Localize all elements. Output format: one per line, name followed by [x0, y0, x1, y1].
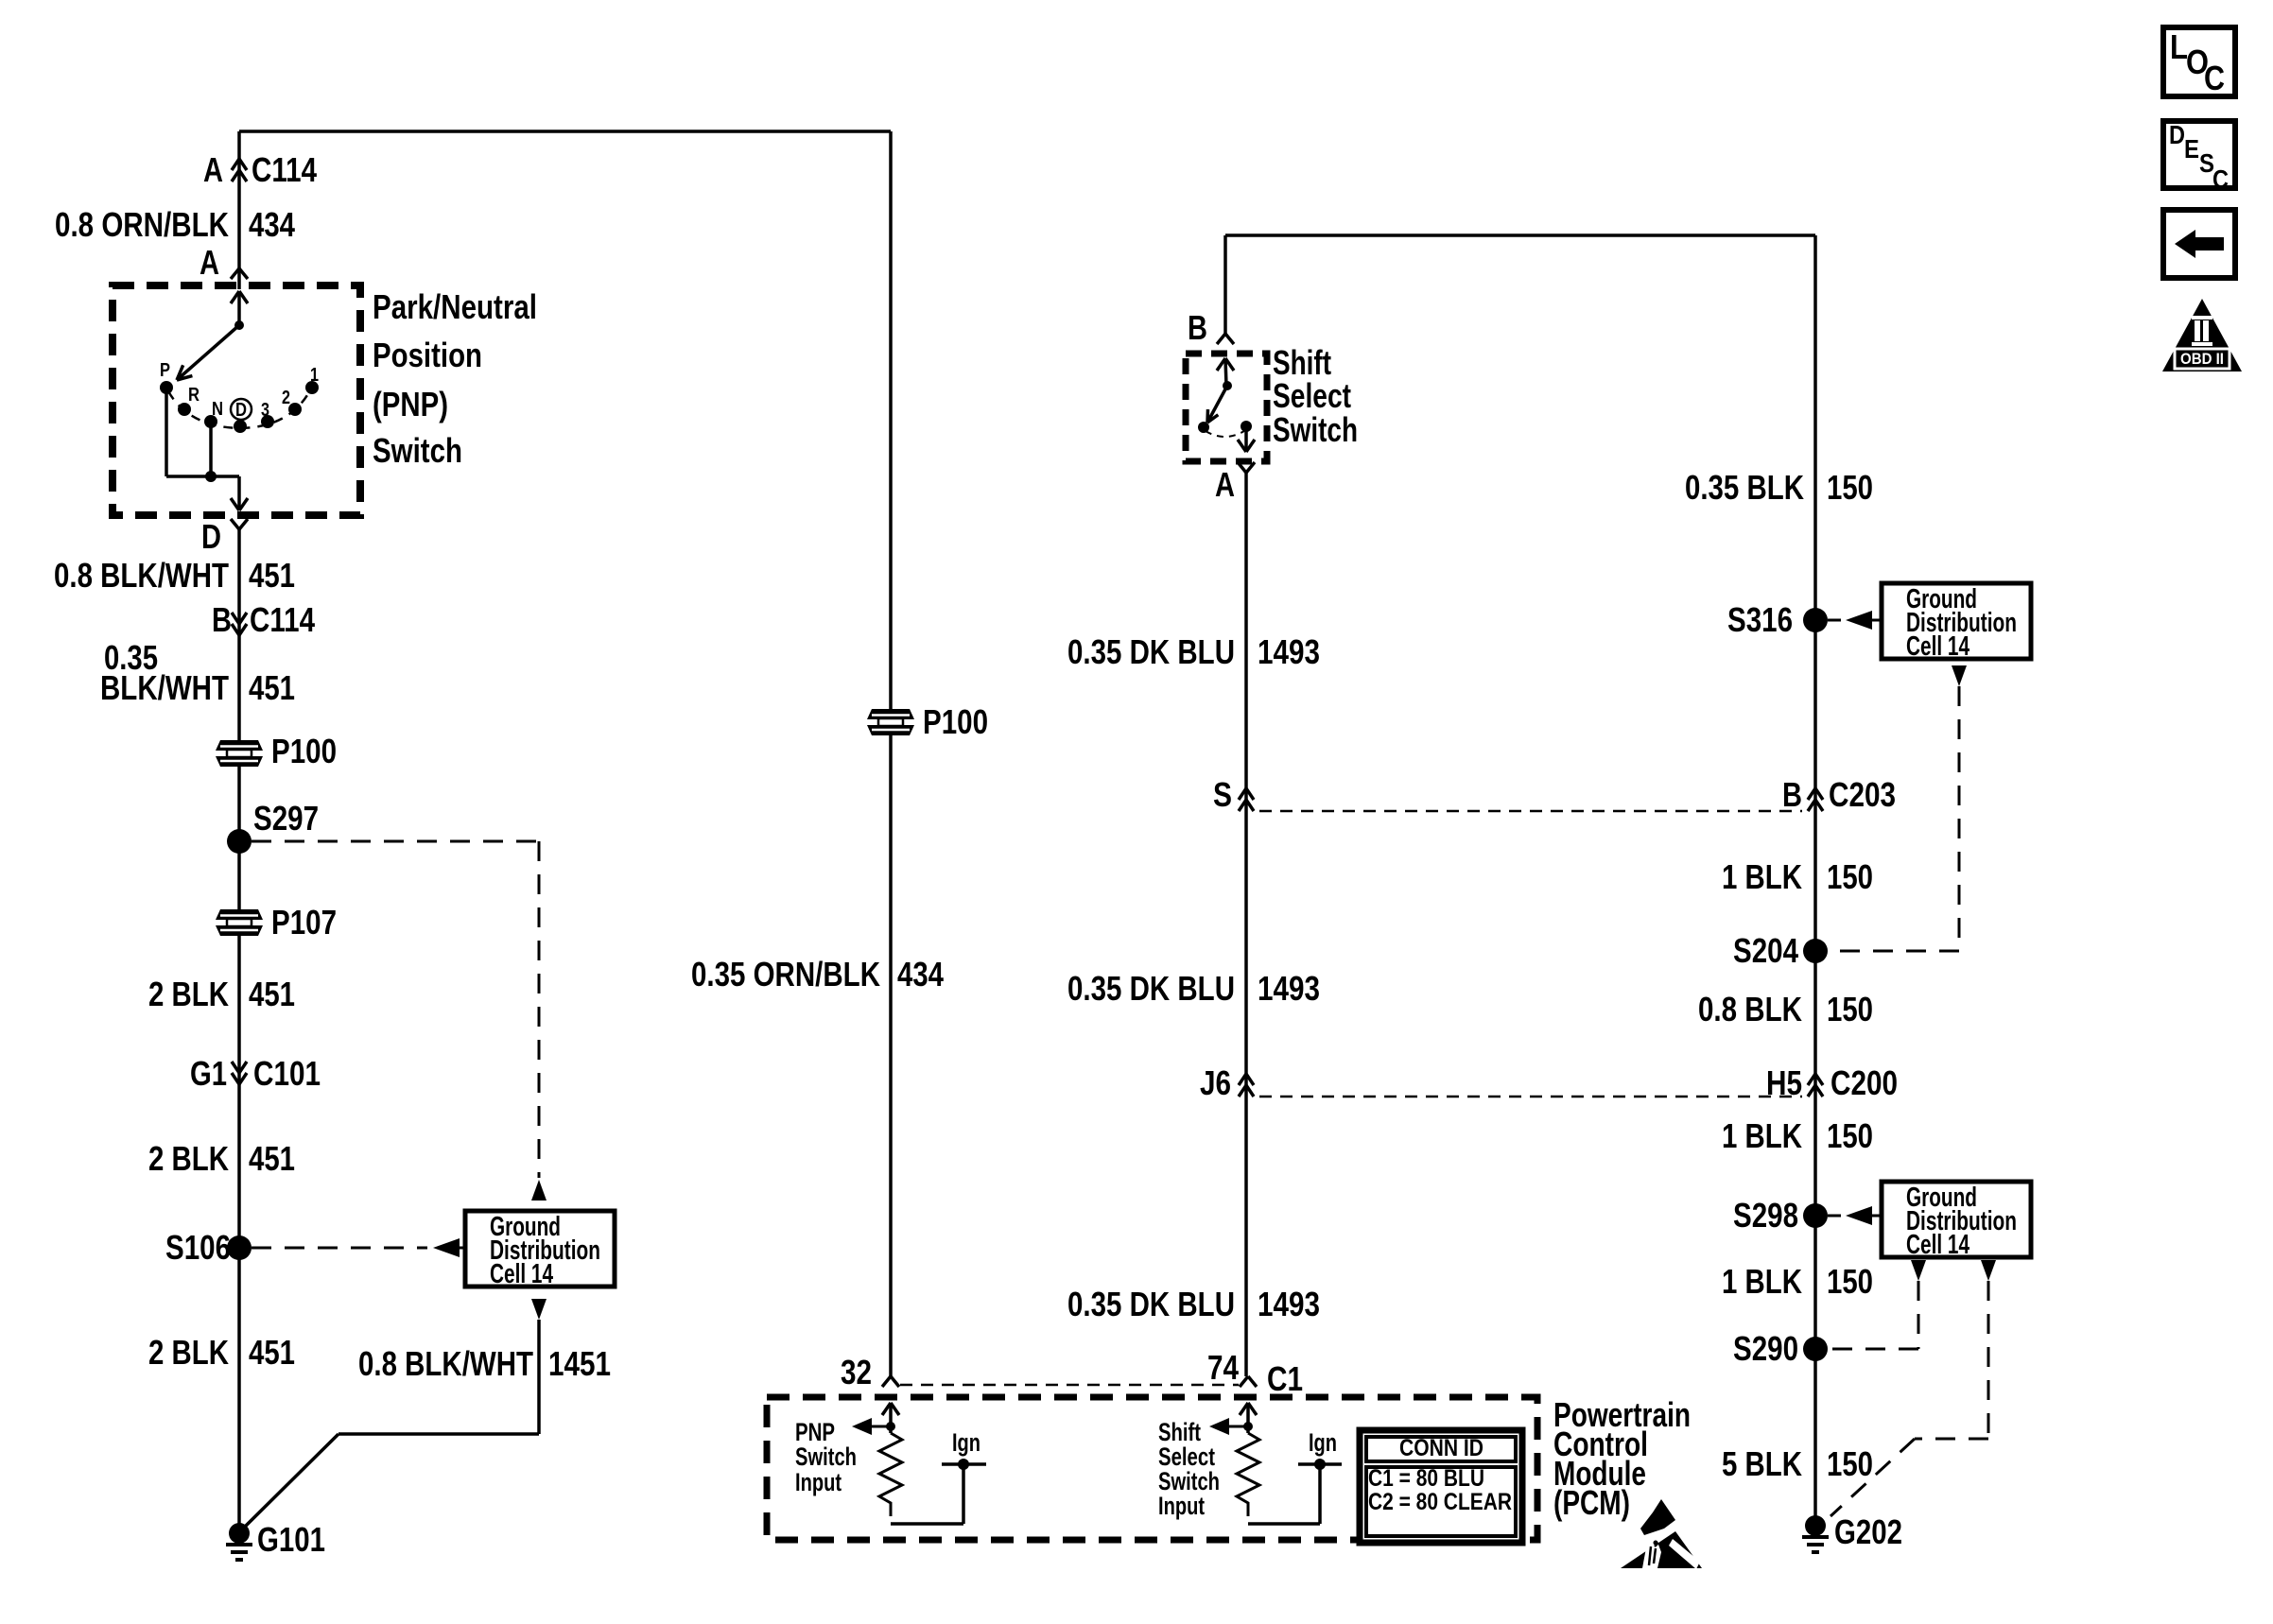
svg-text:74: 74 [1207, 1348, 1239, 1387]
svg-text:D: D [2169, 120, 2185, 149]
svg-text:C: C [2204, 59, 2225, 97]
svg-text:B: B [1188, 308, 1207, 347]
svg-text:2 BLK: 2 BLK [148, 975, 229, 1013]
dashed reference wire from S106 to cell 14 box [252, 1247, 427, 1250]
svg-text:0.35 ORN/BLK: 0.35 ORN/BLK [691, 955, 880, 993]
svg-text:G101: G101 [257, 1520, 325, 1559]
wire: left vertical drop from top to PNP switch [237, 131, 241, 289]
svg-text:1: 1 [310, 365, 319, 386]
arrowhead down below box [531, 1299, 547, 1320]
connector C114 pin A (double chevron) [232, 170, 247, 181]
svg-text:Cell 14: Cell 14 [490, 1259, 553, 1289]
svg-text:Park/Neutral: Park/Neutral [373, 287, 537, 326]
svg-text:2 BLK: 2 BLK [148, 1139, 229, 1178]
position 2 [288, 403, 302, 416]
svg-text:5 BLK: 5 BLK [1722, 1444, 1802, 1483]
arrow to Shift Select Switch Input [1227, 1425, 1248, 1428]
wire: middle vertical 434 circuit down to PCM pin 32 [889, 131, 893, 1376]
svg-text:P100: P100 [271, 732, 337, 770]
svg-text:P107: P107 [271, 903, 337, 942]
svg-text:C114: C114 [250, 600, 315, 639]
wire: PNP D down to C114-B [237, 529, 241, 740]
svg-text:A: A [203, 150, 223, 189]
svg-text:(PNP): (PNP) [373, 385, 448, 423]
svg-text:C203: C203 [1829, 775, 1896, 814]
PNP interior wiring P and N to output D [165, 388, 168, 476]
ground G101 [229, 1523, 250, 1544]
svg-text:451: 451 [249, 668, 295, 707]
wire: right ground column vertical [1813, 235, 1817, 1517]
connector C200 pin J6 (double chevron up) with dashed tie to H5 [1239, 1085, 1254, 1097]
resistor (pin 32 pull-up) [879, 1433, 902, 1516]
svg-text:S316: S316 [1727, 600, 1793, 639]
ground G202 [1805, 1515, 1826, 1536]
svg-text:Cell 14: Cell 14 [1906, 1230, 1969, 1260]
svg-text:BLK/WHT: BLK/WHT [100, 668, 229, 707]
svg-text:C1 = 80 BLU: C1 = 80 BLU [1368, 1465, 1484, 1492]
LOC legend box [2163, 27, 2235, 96]
svg-text:434: 434 [249, 205, 295, 244]
svg-text:G202: G202 [1834, 1512, 1902, 1551]
wire: shift select A down to PCM pin 74 [1244, 473, 1248, 1376]
back-arrow legend box [2163, 210, 2235, 278]
connector C200 pin H5 (double chevron up) [1808, 1085, 1823, 1097]
wire: top-right horizontal from shift-select B to right ground column [1225, 233, 1815, 237]
svg-text:1493: 1493 [1258, 632, 1320, 671]
position 3 [261, 415, 274, 428]
arrowhead left [433, 1238, 460, 1257]
wire: top-left horizontal from C114-A to middle drop [239, 130, 891, 133]
wire P107 to C101 [237, 936, 241, 1533]
svg-text:B: B [1782, 775, 1802, 814]
svg-text:S290: S290 [1733, 1329, 1798, 1368]
svg-text:S: S [1213, 775, 1232, 814]
position 1 [305, 381, 319, 394]
svg-text:S204: S204 [1733, 931, 1798, 970]
svg-text:E: E [2184, 134, 2199, 164]
svg-text:J6: J6 [1200, 1063, 1231, 1102]
svg-text:Ign: Ign [952, 1428, 980, 1457]
connector S (in-line, double chevron up) with dashed tie to C203 [1239, 800, 1254, 811]
wire from cell 14 down-left to G101 [537, 1320, 541, 1434]
svg-text:451: 451 [249, 1139, 295, 1178]
svg-text:0.35 DK BLU: 0.35 DK BLU [1067, 632, 1235, 671]
svg-text:P100: P100 [923, 702, 988, 741]
Ign feed (left) [958, 1459, 969, 1470]
svg-text:2 BLK: 2 BLK [148, 1333, 229, 1372]
arrowheads below box + dashed refs [1911, 1260, 1926, 1281]
connector C114 pin B (double chevron down) [232, 613, 247, 624]
Powertrain Control Module dashed box [767, 1397, 1537, 1540]
svg-text:0.8 ORN/BLK: 0.8 ORN/BLK [55, 205, 229, 244]
splice node S106 [227, 1235, 252, 1260]
svg-text:Switch: Switch [373, 431, 462, 470]
svg-text:0.35 BLK: 0.35 BLK [1685, 468, 1804, 507]
svg-text:32: 32 [841, 1353, 872, 1391]
splice node S316 [1803, 608, 1828, 632]
PCM pin 74 interior: pull-up to Ign [1240, 1403, 1248, 1415]
svg-text:1493: 1493 [1258, 969, 1320, 1008]
position N [204, 415, 217, 428]
svg-text:C114: C114 [252, 150, 317, 189]
PCM pin 32 interior: pull-up to Ign [882, 1403, 891, 1415]
svg-text:0.8 BLK/WHT: 0.8 BLK/WHT [54, 556, 229, 595]
shift switch interior [1217, 358, 1225, 371]
dashed PCM header row between pin 32 and 74 [900, 1384, 1239, 1387]
connector pin D below PNP box [231, 519, 239, 529]
svg-text:A: A [200, 243, 219, 282]
svg-text:CONN ID: CONN ID [1399, 1435, 1484, 1461]
connector pin B [1217, 334, 1225, 344]
svg-text:150: 150 [1827, 1116, 1873, 1155]
svg-text:C1: C1 [1267, 1359, 1303, 1398]
splice node S204 [1803, 939, 1828, 963]
svg-text:S297: S297 [253, 799, 319, 838]
svg-text:451: 451 [249, 975, 295, 1013]
svg-text:G1: G1 [190, 1054, 227, 1093]
reference arrow S298 to cell 14 [1828, 1215, 1841, 1218]
svg-text:OBD II: OBD II [2180, 350, 2224, 368]
svg-text:1493: 1493 [1258, 1285, 1320, 1323]
svg-text:150: 150 [1827, 468, 1873, 507]
svg-text:Select: Select [1273, 376, 1351, 415]
svg-text:D: D [235, 400, 247, 421]
svg-text:150: 150 [1827, 1262, 1873, 1301]
svg-text:434: 434 [897, 955, 944, 993]
OBD II symbol [2162, 299, 2242, 371]
reference arrow S316 to cell 14 [1828, 619, 1841, 622]
connector C101 pin G1 (double chevron down) [232, 1062, 247, 1073]
position P [160, 381, 173, 394]
svg-text:A: A [1215, 465, 1235, 504]
Park/Neutral Position (PNP) Switch dashed box [113, 285, 360, 515]
PNP switch interior: wiper arm from pin A [231, 291, 239, 303]
dashed reference wire from S297 to ground distribution cell [252, 840, 539, 843]
resistor (pin 74 pull-up) [1237, 1433, 1259, 1516]
svg-text:2: 2 [282, 388, 290, 408]
position D (circled) [234, 420, 247, 433]
svg-text:N: N [212, 399, 223, 420]
svg-text:H5: H5 [1766, 1063, 1802, 1102]
svg-text:R: R [188, 385, 200, 406]
svg-text:D: D [201, 517, 221, 556]
Shift Select Switch dashed box [1186, 354, 1267, 461]
svg-text:0.35 DK BLU: 0.35 DK BLU [1067, 1285, 1235, 1323]
PNP positions arc [168, 389, 311, 428]
svg-text:1 BLK: 1 BLK [1722, 1116, 1802, 1155]
svg-text:S106: S106 [165, 1228, 231, 1267]
Ground Distribution Cell 14 box (lower right) [1882, 1182, 2031, 1257]
connector pin A below shift box [1238, 462, 1246, 473]
arrow to PNP Switch Input [870, 1425, 891, 1428]
svg-text:(PCM): (PCM) [1553, 1483, 1630, 1522]
svg-text:Position: Position [373, 336, 482, 374]
svg-text:3: 3 [261, 400, 269, 421]
svg-text:Input: Input [795, 1468, 842, 1496]
splice node S298 [1803, 1203, 1828, 1228]
svg-text:Cell 14: Cell 14 [1906, 631, 1969, 662]
position R [178, 403, 191, 416]
svg-text:1451: 1451 [548, 1344, 611, 1383]
splice sleeve P100 (left) [216, 740, 263, 767]
svg-text:C101: C101 [253, 1054, 321, 1093]
svg-text:C: C [2212, 164, 2229, 194]
svg-text:C2 = 80 CLEAR: C2 = 80 CLEAR [1368, 1489, 1512, 1515]
Ign feed (right) [1314, 1459, 1326, 1470]
svg-text:Switch: Switch [795, 1443, 857, 1471]
wire down to S297 [237, 767, 241, 841]
svg-text:451: 451 [249, 556, 295, 595]
svg-text:451: 451 [249, 1333, 295, 1372]
svg-text:Switch: Switch [1273, 410, 1358, 449]
CONN ID table [1360, 1430, 1522, 1543]
svg-text:C200: C200 [1831, 1063, 1898, 1102]
wire S297 to P107 [237, 841, 241, 909]
ESD sensitivity symbol [1640, 1499, 1675, 1535]
arrowhead down below box + dashed to S204 [1952, 665, 1967, 686]
splice node S290 [1803, 1337, 1828, 1361]
connector C203 pin B (double chevron up) [1808, 800, 1823, 811]
splice sleeve P107 [216, 909, 263, 936]
svg-text:Ign: Ign [1309, 1428, 1337, 1457]
splice sleeve P100 (middle) [867, 709, 914, 735]
splice node S297 [227, 829, 252, 854]
svg-text:B: B [212, 600, 232, 639]
svg-text:150: 150 [1827, 990, 1873, 1028]
Ground Distribution Cell 14 box (upper right) [1882, 583, 2031, 659]
svg-text:150: 150 [1827, 1444, 1873, 1483]
wire: drop from top-right horizontal to shift select switch pin B [1223, 235, 1227, 334]
svg-text:150: 150 [1827, 857, 1873, 896]
svg-text:0.8 BLK/WHT: 0.8 BLK/WHT [358, 1344, 533, 1383]
svg-text:0.8 BLK: 0.8 BLK [1698, 990, 1802, 1028]
svg-text:Input: Input [1158, 1492, 1205, 1520]
arrowhead up [531, 1180, 547, 1201]
svg-text:1 BLK: 1 BLK [1722, 1262, 1802, 1301]
DESC legend box [2163, 121, 2235, 188]
svg-text:P: P [160, 360, 170, 381]
svg-text:S298: S298 [1733, 1196, 1798, 1235]
svg-text:0.35 DK BLU: 0.35 DK BLU [1067, 969, 1235, 1008]
Ground Distribution Cell 14 box (left) [465, 1211, 615, 1287]
svg-text:1 BLK: 1 BLK [1722, 857, 1802, 896]
